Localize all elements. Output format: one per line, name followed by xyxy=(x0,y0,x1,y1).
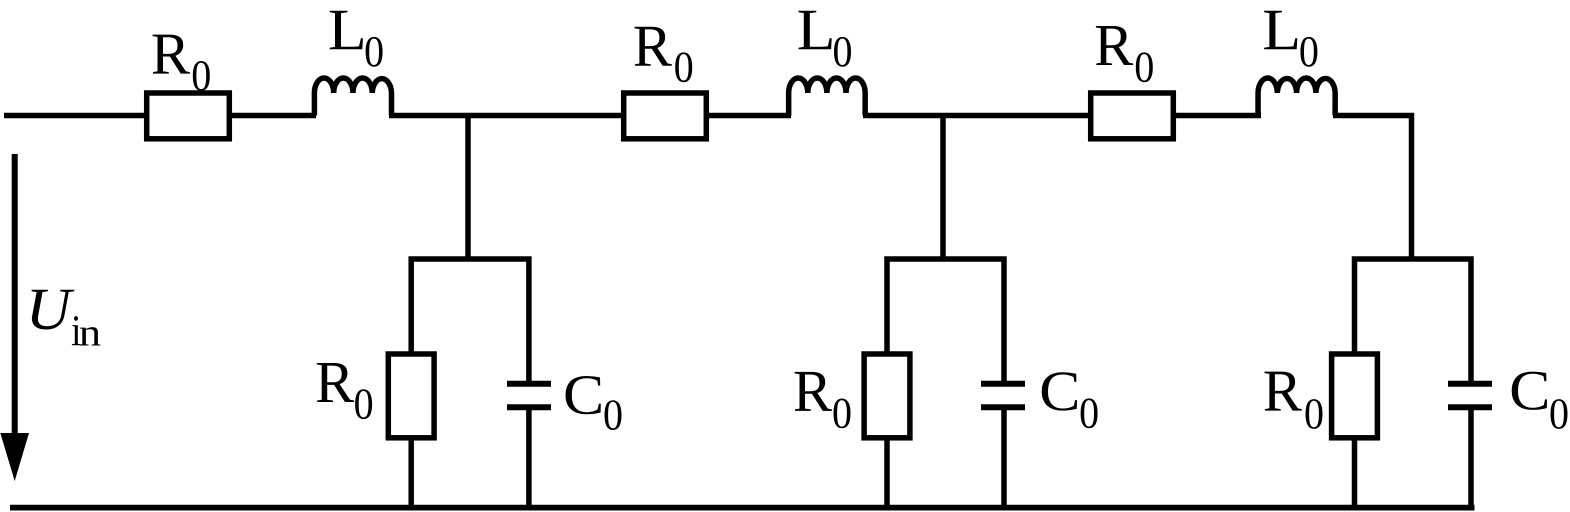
label L0 series 2: L xyxy=(799,11,832,49)
resistor R0 shunt 1 xyxy=(388,354,434,438)
label R0 shunt 1: subscript 0 xyxy=(355,389,372,419)
resistor R0 series section 3 xyxy=(1091,93,1174,139)
wire shunt bar 3 with descents xyxy=(1355,259,1472,382)
label R0 series 3: subscript 0 xyxy=(1136,52,1153,82)
label C0 shunt 3: subscript 0 xyxy=(1551,399,1568,429)
label U_in: U (italic) xyxy=(32,290,75,330)
label L0 series 1: subscript 0 xyxy=(366,37,383,67)
label R0 shunt 2: subscript 0 xyxy=(834,399,851,429)
label C0 shunt 2: subscript 0 xyxy=(1081,398,1098,428)
wire shunt R3 bottom lead xyxy=(1352,437,1358,508)
label C0 shunt 3: C xyxy=(1512,372,1547,410)
label R0 series 2: subscript 0 xyxy=(675,52,692,82)
resistor R0 shunt 2 xyxy=(864,354,910,438)
wire shunt C1 bottom lead xyxy=(526,409,532,508)
wire between R1 and L1 xyxy=(229,113,316,119)
wire between R3 and L3 xyxy=(1173,113,1261,119)
label R0 series 1: R xyxy=(153,35,190,74)
label R0 shunt 2: R xyxy=(795,372,832,411)
label L0 series 2: subscript 0 xyxy=(834,37,851,67)
wire bottom rail xyxy=(10,505,1475,511)
U_in arrow shaft xyxy=(12,154,18,440)
label C0 shunt 2: C xyxy=(1042,372,1077,410)
wire between R2 and L2 xyxy=(706,113,791,119)
wire shunt C2 bottom lead xyxy=(1001,409,1007,508)
node stub junction 1 (top rail to shunt bar 1) xyxy=(465,113,471,261)
label U_in: subscript n xyxy=(80,327,101,345)
capacitor C0 plates shunt 3 xyxy=(1448,381,1492,387)
wire between L2 and R3 xyxy=(863,113,1091,119)
label R0 shunt 1: R xyxy=(317,363,354,402)
label C0 shunt 1: C xyxy=(566,376,601,414)
label R0 series 3: R xyxy=(1096,26,1133,65)
label R0 series 1: subscript 0 xyxy=(193,61,210,91)
U_in arrowhead xyxy=(0,433,29,481)
resistor R0 series section 2 xyxy=(624,93,707,139)
resistor R0 series section 1 xyxy=(147,93,230,139)
wire top rail segment A (left end to R1) xyxy=(4,113,146,119)
label L0 series 3: subscript 0 xyxy=(1300,37,1317,67)
wire shunt R1 bottom lead xyxy=(408,437,414,508)
inductor L0 section 3 xyxy=(1258,78,1335,116)
wire from L3 to top-right corner, down to shunt 3 xyxy=(1333,116,1412,262)
label C0 shunt 1: subscript 0 xyxy=(605,400,622,430)
label L0 series 3: L xyxy=(1264,11,1297,49)
label R0 series 2: R xyxy=(635,27,672,66)
node stub junction 2 (top rail to shunt bar 2) xyxy=(940,113,946,261)
capacitor C0 plates shunt 2 xyxy=(981,381,1025,387)
inductor L0 section 2 xyxy=(789,78,866,116)
wire shunt R2 bottom lead xyxy=(884,437,890,508)
resistor R0 shunt 3 xyxy=(1332,354,1378,438)
wire shunt bar 2 with descents xyxy=(887,259,1004,382)
wire shunt C3 bottom lead xyxy=(1468,409,1474,508)
label R0 shunt 3: R xyxy=(1265,372,1302,411)
label R0 shunt 3: subscript 0 xyxy=(1306,399,1323,429)
capacitor C0 plates shunt 1 xyxy=(507,381,551,387)
label U_in: subscript i xyxy=(72,316,81,345)
wire shunt bar 1 with descents xyxy=(411,259,529,382)
wire between L1 and R2 xyxy=(389,113,624,119)
inductor L0 section 1 xyxy=(314,78,391,115)
label L0 series 1: L xyxy=(330,11,363,49)
